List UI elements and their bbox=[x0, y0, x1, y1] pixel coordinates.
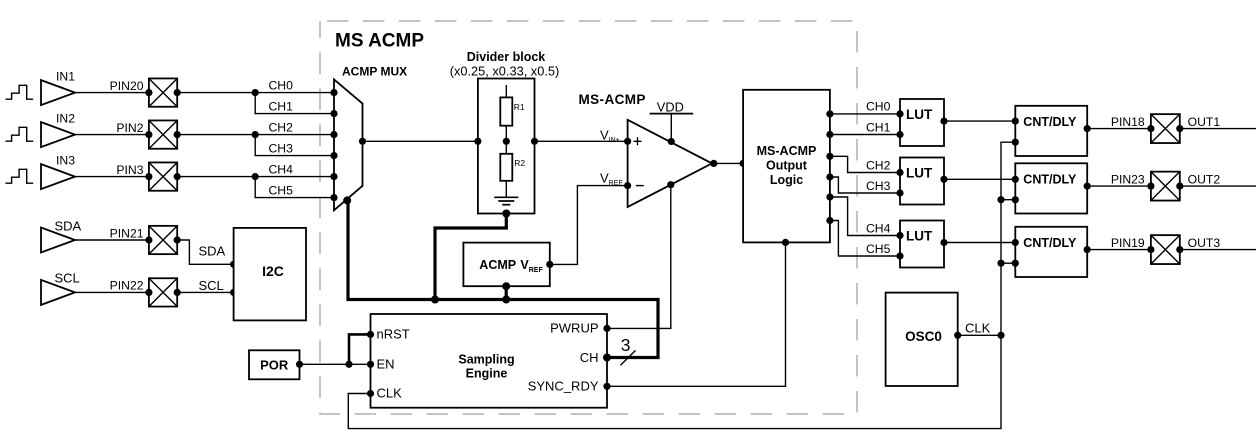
svg-text:CH: CH bbox=[580, 350, 599, 365]
node junction CH2/CH3 bbox=[252, 131, 259, 138]
svg-text:Output: Output bbox=[766, 159, 808, 173]
svg-text:CNT/DLY: CNT/DLY bbox=[1023, 236, 1077, 250]
wire LUT2 to CNT/DLY2 bbox=[944, 178, 1015, 180]
svg-text:SDA: SDA bbox=[55, 218, 82, 233]
pad PIN2 bbox=[145, 120, 181, 148]
svg-text:SCL: SCL bbox=[55, 271, 80, 286]
node junction OSC0 CLK on net bbox=[997, 332, 1004, 339]
pad PIN19 bbox=[1147, 235, 1183, 264]
wire CH4 output bbox=[830, 197, 900, 236]
svg-text:CH4: CH4 bbox=[269, 162, 294, 176]
svg-text:POR: POR bbox=[260, 358, 289, 373]
block sampling engine bbox=[367, 314, 611, 408]
buffer IN2 bbox=[41, 111, 75, 147]
wire SDA to pad PIN21 bbox=[75, 226, 149, 240]
svg-text:OUT1: OUT1 bbox=[1188, 115, 1221, 129]
node comparator V REF input bbox=[600, 170, 631, 189]
svg-text:CH4: CH4 bbox=[866, 221, 891, 235]
svg-text:CH0: CH0 bbox=[866, 100, 891, 114]
wire IN3 to pad PIN3 bbox=[75, 163, 149, 177]
wire OUT3 bbox=[1180, 236, 1256, 250]
svg-text:EN: EN bbox=[377, 357, 395, 372]
svg-text:SYNC_RDY: SYNC_RDY bbox=[528, 379, 599, 394]
svg-text:CH3: CH3 bbox=[866, 179, 891, 193]
bus width marker 3 bbox=[621, 335, 636, 365]
node junction bus on mux slant bbox=[343, 196, 351, 204]
wire SCL to pad PIN22 bbox=[75, 279, 149, 293]
wire CNT/DLY2 to pad PIN23 bbox=[1087, 172, 1151, 186]
svg-text:PIN23: PIN23 bbox=[1111, 172, 1145, 186]
wire divider select thick bbox=[435, 210, 510, 300]
pad PIN18 bbox=[1147, 114, 1183, 143]
svg-text:Divider block: Divider block bbox=[467, 50, 546, 64]
wire CH2 output bbox=[830, 156, 900, 172]
wire PWRUP to comparator bbox=[607, 185, 671, 329]
svg-text:Sampling: Sampling bbox=[458, 352, 514, 366]
svg-text:PIN19: PIN19 bbox=[1111, 236, 1145, 250]
wire POR to EN bbox=[300, 363, 371, 365]
svg-text:CH5: CH5 bbox=[269, 183, 294, 197]
buffer IN1 bbox=[41, 69, 75, 105]
wire CH3 output bbox=[830, 177, 900, 193]
wire CH5 output bbox=[830, 221, 900, 257]
svg-text:SDA: SDA bbox=[199, 243, 226, 258]
svg-text:CLK: CLK bbox=[377, 386, 403, 401]
svg-text:CH5: CH5 bbox=[866, 242, 891, 256]
wire nRST loop bbox=[349, 334, 371, 364]
svg-text:PIN22: PIN22 bbox=[110, 279, 144, 293]
wire CH3 branch bbox=[255, 135, 334, 156]
svg-text:OSC0: OSC0 bbox=[905, 329, 942, 344]
wire CH0 from pad to mux bbox=[177, 78, 334, 92]
buffer SDA bbox=[41, 218, 82, 252]
wire VREF from ACMP VREF block to comparator bbox=[550, 186, 628, 265]
wire CH1 branch bbox=[255, 93, 334, 114]
svg-text:CH1: CH1 bbox=[269, 99, 294, 113]
wire OUT2 bbox=[1180, 172, 1256, 186]
svg-text:SCL: SCL bbox=[199, 278, 224, 293]
pad PIN22 bbox=[145, 278, 181, 306]
svg-text:3: 3 bbox=[621, 335, 631, 355]
node divider tap bbox=[474, 138, 538, 145]
buffer SCL bbox=[41, 271, 80, 305]
resistor R2 bbox=[500, 154, 525, 181]
svg-text:CH0: CH0 bbox=[269, 78, 294, 92]
waveform icon input IN3 bbox=[6, 169, 34, 183]
svg-text:IN3: IN3 bbox=[56, 153, 75, 167]
block LUT 2 bbox=[896, 158, 947, 205]
wire CNT/DLY1 to pad PIN18 bbox=[1087, 115, 1151, 129]
title MS ACMP bbox=[335, 31, 424, 52]
svg-text:ACMP MUX: ACMP MUX bbox=[342, 64, 407, 78]
wire SCL pad to I2C bbox=[177, 278, 237, 296]
svg-text:R1: R1 bbox=[514, 102, 525, 112]
wire divider internal top bbox=[505, 85, 507, 97]
svg-text:CH2: CH2 bbox=[269, 120, 294, 134]
svg-text:MS-ACMP: MS-ACMP bbox=[579, 92, 646, 107]
svg-text:LUT: LUT bbox=[906, 165, 933, 180]
wire IN2 to pad PIN2 bbox=[75, 121, 149, 135]
node junction CH0/CH1 bbox=[252, 89, 259, 96]
block LUT 3 bbox=[896, 221, 947, 268]
svg-text:VDD: VDD bbox=[657, 99, 684, 114]
svg-text:OUT2: OUT2 bbox=[1188, 172, 1221, 186]
svg-text:PIN20: PIN20 bbox=[110, 79, 144, 93]
node junction divider select on bus bbox=[431, 296, 439, 304]
svg-text:PIN3: PIN3 bbox=[116, 163, 143, 177]
wire R2 to ground bbox=[505, 181, 507, 198]
wire OSC0 CLK bbox=[958, 320, 1001, 335]
wire CH5 branch bbox=[255, 177, 334, 198]
block ACMP VREF bbox=[463, 243, 553, 291]
wire CH2 from pad to mux bbox=[177, 120, 334, 134]
svg-text:PWRUP: PWRUP bbox=[550, 321, 598, 336]
svg-text:PIN18: PIN18 bbox=[1111, 115, 1145, 129]
wire R1 to R2 bbox=[505, 126, 507, 154]
svg-text:OUT3: OUT3 bbox=[1188, 236, 1221, 250]
wire mux output to comparator bbox=[363, 140, 628, 142]
svg-text:CNT/DLY: CNT/DLY bbox=[1023, 173, 1077, 187]
wire SDA pad to I2C bbox=[177, 240, 237, 268]
wire CH0 output bbox=[830, 100, 900, 114]
buffer IN3 bbox=[41, 153, 75, 189]
wire CLK distribution net bbox=[348, 142, 1015, 428]
wire CH4 from pad to mux bbox=[177, 162, 334, 176]
svg-text:PIN21: PIN21 bbox=[110, 226, 144, 240]
node comparator V IN+ input bbox=[600, 128, 631, 145]
svg-text:nRST: nRST bbox=[377, 327, 410, 342]
node junction VREF select on bus bbox=[502, 296, 510, 304]
block MS-ACMP output logic bbox=[743, 90, 833, 246]
svg-text:Logic: Logic bbox=[770, 173, 803, 187]
svg-text:CH3: CH3 bbox=[269, 141, 294, 155]
power VDD bbox=[650, 99, 694, 145]
svg-text:CH1: CH1 bbox=[866, 120, 891, 134]
wire SYNC_RDY to output logic bbox=[607, 242, 786, 386]
svg-text:MS ACMP: MS ACMP bbox=[335, 31, 424, 52]
wire CNT/DLY3 to pad PIN19 bbox=[1087, 236, 1151, 250]
wire OUT1 bbox=[1180, 115, 1256, 129]
op-amp MS-ACMP comparator bbox=[579, 92, 713, 207]
waveform icon input IN2 bbox=[6, 127, 34, 141]
block LUT 1 bbox=[896, 99, 947, 146]
svg-text:R2: R2 bbox=[514, 158, 525, 168]
wire CH select bus thick bbox=[348, 201, 658, 358]
block POR bbox=[249, 350, 303, 379]
block CNT/DLY 1 bbox=[1012, 106, 1091, 156]
svg-text:I2C: I2C bbox=[262, 263, 284, 279]
wire CH1 output bbox=[830, 120, 900, 134]
svg-text:LUT: LUT bbox=[906, 228, 933, 243]
svg-text:(x0.25, x0.33, x0.5): (x0.25, x0.33, x0.5) bbox=[450, 63, 560, 78]
ground bbox=[494, 197, 518, 204]
waveform icon input IN1 bbox=[6, 85, 34, 99]
wire IN1 to pad PIN20 bbox=[75, 79, 149, 93]
node junction CLK CNT/DLY2 bbox=[997, 196, 1004, 203]
block CNT/DLY 2 bbox=[1012, 163, 1091, 213]
svg-text:CLK: CLK bbox=[965, 320, 991, 335]
svg-text:LUT: LUT bbox=[906, 107, 933, 122]
node junction CH4/CH5 bbox=[252, 173, 259, 180]
node junction CLK CNT/DLY3 bbox=[997, 260, 1004, 267]
svg-text:MS-ACMP: MS-ACMP bbox=[757, 144, 817, 158]
mux ACMP MUX bbox=[330, 64, 407, 210]
wire comparator output bbox=[710, 160, 747, 167]
wire ACMP VREF select bbox=[505, 286, 508, 299]
svg-text:IN1: IN1 bbox=[56, 69, 75, 83]
block I2C bbox=[234, 228, 306, 321]
svg-text:Engine: Engine bbox=[466, 367, 508, 381]
svg-text:ACMP: ACMP bbox=[479, 258, 516, 272]
wire LUT1 to CNT/DLY1 bbox=[944, 120, 1015, 122]
pad PIN23 bbox=[1147, 172, 1183, 201]
svg-text:PIN2: PIN2 bbox=[116, 121, 143, 135]
svg-text:IN2: IN2 bbox=[56, 111, 75, 125]
block divider bbox=[450, 50, 560, 214]
svg-text:CH2: CH2 bbox=[866, 158, 891, 172]
dashed boundary MS ACMP block bbox=[320, 21, 857, 414]
node comparator powerdown pin bbox=[667, 181, 674, 188]
pad PIN21 bbox=[145, 226, 181, 254]
pad PIN20 bbox=[145, 78, 181, 106]
block OSC0 bbox=[886, 293, 962, 386]
node junction nRST/EN bbox=[345, 361, 352, 368]
resistor R1 bbox=[500, 97, 525, 125]
block CNT/DLY 3 bbox=[1012, 227, 1091, 277]
wire LUT3 to CNT/DLY3 bbox=[944, 242, 1015, 244]
svg-text:CNT/DLY: CNT/DLY bbox=[1023, 115, 1077, 129]
pad PIN3 bbox=[145, 162, 181, 190]
